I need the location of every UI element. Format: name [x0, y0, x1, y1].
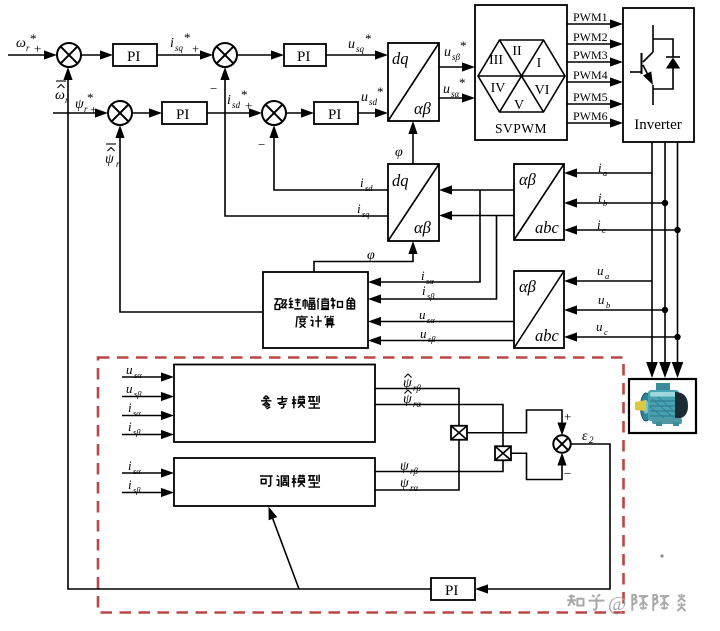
- IGBT Q1 inside inverter: [630, 25, 657, 105]
- svg-text:sβ: sβ: [134, 389, 142, 399]
- svg-text:PWM6: PWM6: [573, 109, 608, 123]
- svg-text:ψ: ψ: [75, 97, 84, 112]
- svg-text:i: i: [128, 400, 132, 415]
- watermark zhihu author: [567, 593, 686, 615]
- svg-text:sβ: sβ: [133, 485, 141, 495]
- svg-text:PI: PI: [297, 49, 310, 65]
- svg-text:sβ: sβ: [133, 427, 141, 437]
- svg-text:b: b: [606, 300, 610, 310]
- svg-text:−: −: [258, 137, 265, 152]
- svg-text:sα: sα: [134, 370, 142, 380]
- svg-text:i: i: [357, 201, 361, 216]
- svg-text:2: 2: [589, 435, 594, 445]
- wire u_sbeta* from U1 to SVPWM: [439, 38, 475, 72]
- svg-text:ω: ω: [16, 36, 26, 51]
- wire input i_sbeta to reference model: [122, 419, 174, 439]
- feedback label psi_r hat-bar below S3: [105, 144, 120, 169]
- wire PWM1: [567, 10, 623, 29]
- svg-text:sβ: sβ: [427, 291, 435, 301]
- svg-text:+: +: [564, 409, 571, 424]
- svg-text:u: u: [596, 319, 603, 334]
- wire psi_ralpha hat from reference model to multiplier M2: [375, 390, 503, 447]
- wire S3 to PI3: [132, 108, 162, 117]
- motor image: [635, 383, 688, 426]
- svg-text:+: +: [245, 98, 252, 113]
- svg-text:u: u: [597, 263, 604, 278]
- wire u_salpha* from U1 to SVPWM: [439, 75, 475, 103]
- svg-text:−: −: [564, 466, 571, 481]
- wire PWM4: [567, 68, 623, 87]
- svg-text:a: a: [605, 271, 609, 281]
- wire u_a from phase a to U3: [564, 263, 652, 286]
- multiplier M2: [495, 446, 511, 460]
- svg-text:u: u: [444, 45, 451, 60]
- svg-text:ε: ε: [582, 429, 588, 444]
- svg-text:i: i: [128, 419, 132, 434]
- svg-text:III: III: [489, 53, 503, 68]
- svg-text:αβ: αβ: [414, 99, 432, 118]
- svg-text:abc: abc: [535, 218, 560, 237]
- svg-text:*: *: [459, 75, 466, 90]
- wire PWM2: [567, 30, 623, 49]
- wire PWM6: [567, 109, 623, 128]
- multiplier M1: [451, 426, 467, 440]
- wire psi_rbeta from adjustable model to multiplier M2: [375, 459, 503, 476]
- block Inverter: [623, 8, 694, 142]
- feedback label omega_r hat-bar beside vertical line: [55, 81, 69, 105]
- wire PWM3: [567, 48, 623, 67]
- svg-text:SVPWM: SVPWM: [495, 121, 547, 136]
- wire speed estimate feedback from PI5 to S1: [63, 67, 431, 589]
- wire PI4 to dq block with label u_sd*: [358, 84, 388, 118]
- svg-text:sα: sα: [133, 408, 141, 418]
- svg-text:u: u: [420, 326, 427, 341]
- svg-text:u: u: [443, 82, 450, 97]
- svg-text:i: i: [128, 477, 132, 492]
- adaptation arrow to adjustable model: [264, 505, 299, 589]
- block SVPWM: [475, 5, 567, 140]
- wire PWM5: [567, 90, 623, 109]
- wire input u_sbeta to reference model: [122, 381, 174, 401]
- wire input u_salpha to reference model: [122, 362, 174, 382]
- svg-text:sβ: sβ: [452, 52, 461, 62]
- svg-text:dq: dq: [392, 49, 409, 68]
- wire u_sbeta from U3 to flux calculator: [368, 326, 514, 345]
- svg-text:ψ: ψ: [105, 152, 114, 167]
- summing junction S2 (q-axis current error): [213, 43, 237, 67]
- svg-text:*: *: [460, 38, 467, 53]
- wire U2 lower output to dq2: [439, 211, 514, 220]
- sector label V: [514, 98, 524, 113]
- svg-text:sd: sd: [232, 100, 241, 110]
- svg-text:b: b: [603, 198, 607, 208]
- PI controller PI3 (flux): [162, 102, 207, 124]
- svg-text:PWM4: PWM4: [573, 68, 608, 82]
- svg-text:sβ: sβ: [428, 334, 436, 344]
- block flux amplitude and angle calculator: [263, 272, 368, 348]
- svg-text:sα: sα: [426, 276, 434, 286]
- svg-text:αβ: αβ: [519, 277, 537, 296]
- wire inverter phase b to motor: [659, 142, 671, 378]
- svg-text:c: c: [604, 327, 608, 337]
- svg-text:*: *: [377, 84, 384, 99]
- sector label III: [489, 53, 503, 68]
- wire epsilon2 from S5 to PI5: [475, 429, 610, 594]
- wire i_sd feedback from dq2 to S4: [269, 125, 388, 193]
- svg-text:i: i: [597, 217, 601, 232]
- svg-text:i: i: [422, 283, 426, 298]
- wire i_b from phase b to U2 with junction dot: [564, 190, 668, 208]
- wire phi from dq2 up to U1: [395, 121, 418, 164]
- svg-text:PI: PI: [127, 49, 140, 65]
- svg-text:αβ: αβ: [519, 170, 537, 189]
- block reference model: [174, 365, 375, 443]
- PI controller PI2 (q current): [284, 44, 326, 66]
- wire input i_sbeta to adjustable model: [122, 477, 174, 497]
- svg-text:PI: PI: [328, 107, 341, 123]
- wire inverter phase c to motor: [672, 142, 684, 378]
- svg-text:i: i: [598, 190, 602, 205]
- svg-text:abc: abc: [535, 326, 560, 345]
- summing junction S5 (speed tuning error): [553, 435, 570, 452]
- MRAS dashed boundary box: [98, 358, 624, 613]
- block U1 dq to alpha-beta voltage transform: [388, 43, 439, 121]
- svg-text:a: a: [603, 168, 607, 178]
- svg-text:+: +: [34, 41, 41, 56]
- wire M2 output to S5 minus input: [511, 453, 571, 482]
- wire psi_ralpha from adjustable model to multiplier M1: [375, 440, 459, 493]
- svg-text:u: u: [598, 292, 605, 307]
- SVPWM sector hexagon: [478, 40, 565, 112]
- svg-text:I: I: [537, 56, 542, 71]
- wire i_c from phase c to U2 with junction dot: [564, 217, 681, 235]
- svg-text:αβ: αβ: [414, 218, 432, 237]
- wire i_a from phase a to U2: [564, 160, 652, 178]
- wire S4 to PI4: [286, 108, 314, 117]
- wire PI2 to dq block with label u_sq*: [326, 31, 388, 60]
- svg-text:sq: sq: [175, 43, 184, 53]
- svg-text:PI: PI: [445, 583, 458, 599]
- wire speed reference input with label omega_r* and plus sign: [8, 31, 57, 60]
- wire S2 to PI2: [237, 50, 284, 59]
- sector label IV: [491, 81, 506, 96]
- svg-text:sq: sq: [356, 44, 365, 54]
- wire input i_salpha to adjustable model: [122, 458, 174, 478]
- svg-text:sq: sq: [362, 209, 370, 219]
- svg-text:ψ: ψ: [400, 476, 409, 491]
- wire input i_salpha to reference model: [122, 400, 174, 420]
- wire u_salpha from U3 to flux calculator: [368, 307, 514, 326]
- summing junction S4 (d-axis current error): [262, 101, 286, 125]
- svg-text:V: V: [514, 98, 524, 113]
- wire i_sq feedback from dq2 to S2: [220, 67, 388, 219]
- svg-text:i: i: [227, 93, 231, 108]
- block U3 alpha-beta to abc voltage transform: [514, 271, 564, 348]
- svg-text:u: u: [348, 37, 355, 52]
- wire PI3 to S4 with label i_sd* and plus: [207, 87, 262, 118]
- svg-text:+: +: [192, 41, 199, 56]
- svg-text:PWM2: PWM2: [573, 30, 608, 44]
- wire tap i_salpha down to flux calculator: [368, 190, 480, 287]
- svg-text:*: *: [184, 30, 191, 45]
- svg-text:rα: rα: [413, 399, 422, 409]
- svg-text:u: u: [419, 307, 426, 322]
- wire M1 output to S5 plus input: [467, 409, 571, 436]
- svg-text:sα: sα: [427, 315, 435, 325]
- wire inverter phase a to motor: [646, 142, 658, 378]
- svg-text:IV: IV: [491, 81, 506, 96]
- minus sign at S4 bottom input: [258, 137, 265, 152]
- svg-text:r: r: [84, 104, 88, 114]
- block motor (induction machine): [629, 379, 696, 433]
- watermark dot: [660, 554, 663, 557]
- svg-text:ψ: ψ: [403, 376, 412, 391]
- svg-text:PWM5: PWM5: [573, 90, 608, 104]
- svg-text:@: @: [608, 593, 626, 615]
- svg-text:sd: sd: [365, 183, 373, 193]
- svg-text:Inverter: Inverter: [634, 117, 681, 133]
- PI controller PI5 (adaptation): [431, 578, 475, 600]
- svg-text:i: i: [128, 458, 132, 473]
- svg-text:c: c: [602, 225, 606, 235]
- svg-text:ψ: ψ: [403, 392, 412, 407]
- block U2 alpha-beta to abc current transform: [514, 164, 564, 240]
- wire flux reference input with label psi_r* and plus: [53, 90, 108, 118]
- svg-text:u: u: [126, 362, 133, 377]
- wire S1 to PI1: [81, 50, 113, 59]
- svg-text:dq: dq: [392, 171, 409, 190]
- svg-text:sα: sα: [451, 89, 460, 99]
- summing junction S1 (speed error): [57, 43, 81, 67]
- wire u_b from phase b to U3 with junction dot: [564, 292, 668, 315]
- svg-text:u: u: [126, 381, 133, 396]
- svg-text:ω: ω: [55, 88, 65, 103]
- svg-text:II: II: [512, 44, 522, 59]
- svg-text:i: i: [421, 268, 425, 283]
- svg-text:i: i: [598, 160, 602, 175]
- svg-text:u: u: [361, 90, 368, 105]
- wire PI1 to S2 with label i_sq* and plus sign: [157, 30, 213, 60]
- block dq2 alpha-beta to dq current transform: [388, 164, 439, 241]
- svg-text:rβ: rβ: [413, 383, 422, 393]
- svg-text:VI: VI: [535, 83, 550, 98]
- svg-text:rα: rα: [410, 483, 419, 493]
- svg-text:rβ: rβ: [410, 466, 419, 476]
- svg-text:−: −: [210, 81, 217, 96]
- wire psi_rbeta hat from reference model to multiplier M1: [375, 374, 459, 426]
- svg-text:φ: φ: [367, 248, 375, 263]
- wire U2 upper output to dq2: [439, 185, 514, 194]
- svg-text:+: +: [90, 102, 97, 117]
- svg-text:*: *: [365, 31, 372, 46]
- wire tap i_sbeta down to flux calculator: [368, 216, 497, 304]
- wire phi from flux calculator to dq2: [314, 241, 418, 272]
- PI controller PI4 (d current): [314, 102, 358, 124]
- sector label VI: [535, 83, 550, 98]
- wire psi_r hat feedback from flux calculator to S3: [115, 125, 263, 312]
- wire u_c from phase c to U3 with junction dot: [564, 319, 681, 342]
- minus sign at S2 bottom input: [210, 81, 217, 96]
- svg-text:i: i: [170, 36, 174, 51]
- svg-text:PWM1: PWM1: [573, 10, 608, 24]
- svg-text:ψ: ψ: [400, 459, 409, 474]
- freewheel diode D1 inside inverter: [653, 39, 680, 89]
- sector label II: [512, 44, 522, 59]
- svg-text:φ: φ: [395, 145, 403, 160]
- block adjustable model: [174, 458, 375, 506]
- summing junction S3 (flux error): [108, 101, 132, 125]
- svg-text:PWM3: PWM3: [573, 48, 608, 62]
- PI controller PI1 (speed): [113, 44, 157, 66]
- svg-text:PI: PI: [176, 107, 189, 123]
- sector label I: [537, 56, 542, 71]
- svg-text:sα: sα: [133, 466, 141, 476]
- svg-text:i: i: [360, 175, 364, 190]
